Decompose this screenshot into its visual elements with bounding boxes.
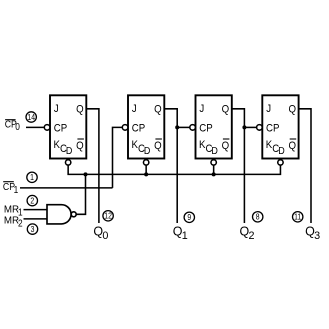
label CP1 [3, 181, 18, 195]
svg-text:K: K [132, 140, 139, 152]
U4 pin name labels J Q CP K CD Qbar [266, 104, 296, 157]
flip-flop U4 (JK) [257, 95, 299, 165]
svg-text:K: K [199, 140, 206, 152]
flip-flop U1 (JK) [44, 95, 86, 165]
U2 Qbar overline [155, 138, 162, 140]
pin 9 circle [184, 212, 194, 222]
wire CP1 riser into FF2 CP [113, 127, 123, 187]
svg-text:2: 2 [249, 230, 255, 242]
svg-text:1: 1 [14, 185, 19, 196]
label Q3 output [305, 225, 320, 242]
svg-text:Q: Q [288, 104, 296, 116]
svg-text:0: 0 [15, 121, 20, 132]
svg-text:3: 3 [31, 224, 35, 234]
svg-text:J: J [132, 104, 137, 116]
label Q2 output [240, 225, 255, 242]
pin 12 circle [103, 211, 113, 221]
svg-text:12: 12 [104, 211, 112, 221]
label MR1 [4, 204, 23, 217]
svg-text:9: 9 [187, 213, 191, 223]
wire FF2 Q out, drops to Q1 [164, 109, 177, 223]
svg-text:CP: CP [266, 123, 280, 135]
wire FF3 CD drop [213, 165, 215, 174]
label CP0 (pin14 clock input) [5, 119, 20, 132]
svg-text:1: 1 [182, 230, 188, 242]
svg-text:Q: Q [222, 141, 230, 153]
wire FF3 Q out, drops to Q2 [232, 109, 245, 223]
svg-text:MR: MR [4, 204, 19, 215]
svg-text:MR: MR [4, 215, 19, 226]
svg-text:CP: CP [132, 123, 146, 135]
node junction FF3 CD [212, 172, 216, 176]
node junction FF3Q/CP4 [242, 125, 246, 129]
flip-flop U3 (JK) [190, 95, 232, 165]
svg-text:J: J [199, 104, 204, 116]
wire FF2 CD drop [145, 165, 147, 174]
node junction FF2Q/CP3 [175, 125, 179, 129]
svg-text:K: K [266, 140, 273, 152]
wire MR1 lead [24, 209, 48, 211]
svg-text:2: 2 [30, 196, 34, 206]
wire NAND output to CD rail [76, 174, 85, 214]
svg-text:J: J [266, 104, 271, 116]
nand gate G1 (master reset) [47, 205, 71, 224]
svg-text:2: 2 [18, 218, 23, 229]
svg-text:1: 1 [30, 173, 34, 183]
svg-text:CP: CP [199, 123, 213, 135]
wire CD master-reset rail [68, 165, 280, 174]
U1 pin name labels J Q CP K CD Qbar [54, 104, 84, 157]
label MR2 [4, 215, 23, 228]
label Q0 output [93, 225, 108, 242]
svg-text:CP: CP [54, 123, 68, 135]
U2 pin name labels J Q CP K CD Qbar [132, 104, 162, 157]
flip-flop U2 (JK) [122, 95, 164, 165]
node junction NAND/rail [84, 172, 88, 176]
svg-text:D: D [144, 145, 151, 157]
nand G1 output bubble [71, 212, 76, 217]
wire MR2 lead [24, 218, 48, 220]
pin 1 circle [27, 172, 37, 182]
svg-text:Q: Q [222, 104, 230, 116]
wire FF1 Q out, drops to Q0 [86, 109, 99, 223]
pin 2 circle [27, 195, 37, 205]
pin 14 circle [26, 112, 36, 122]
U4 Qbar overline [290, 138, 297, 140]
wire CP0 input lead [26, 126, 44, 128]
wire FF2 Q to FF3 CP [177, 126, 190, 128]
pin 3 circle [27, 224, 37, 234]
wire CP1 rail [20, 187, 113, 189]
svg-text:Q: Q [288, 141, 296, 153]
svg-text:D: D [211, 145, 218, 157]
pin 11 circle [293, 212, 303, 222]
svg-text:14: 14 [27, 112, 35, 122]
svg-text:Q: Q [154, 141, 162, 153]
U3 Qbar overline [223, 138, 230, 140]
label Q1 output [173, 225, 188, 242]
svg-text:Q: Q [154, 104, 162, 116]
svg-text:D: D [278, 145, 285, 157]
node junction FF2 CD [144, 172, 148, 176]
svg-text:0: 0 [102, 230, 108, 242]
pin 8 circle [253, 212, 263, 222]
wire FF4 Q out, drops to Q3 [299, 109, 311, 223]
U1 Qbar overline [77, 138, 84, 140]
svg-text:3: 3 [314, 230, 320, 242]
svg-text:Q: Q [76, 104, 84, 116]
svg-text:Q: Q [76, 141, 84, 153]
svg-text:8: 8 [256, 212, 260, 222]
svg-text:J: J [54, 104, 59, 116]
U3 pin name labels J Q CP K CD Qbar [199, 104, 229, 157]
svg-text:K: K [54, 140, 61, 152]
svg-text:11: 11 [294, 212, 301, 222]
wire FF3 Q to FF4 CP [244, 126, 256, 128]
svg-text:D: D [66, 145, 73, 157]
